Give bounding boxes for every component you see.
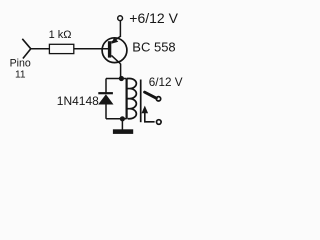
- svg-text:BC 558: BC 558: [132, 39, 175, 54]
- svg-text:1 kΩ: 1 kΩ: [49, 29, 72, 41]
- svg-text:Pino: Pino: [10, 58, 31, 70]
- svg-text:6/12 V: 6/12 V: [149, 76, 183, 89]
- svg-text:1N4148: 1N4148: [57, 94, 99, 108]
- svg-text:11: 11: [15, 69, 26, 80]
- svg-text:+6/12 V: +6/12 V: [129, 10, 178, 26]
